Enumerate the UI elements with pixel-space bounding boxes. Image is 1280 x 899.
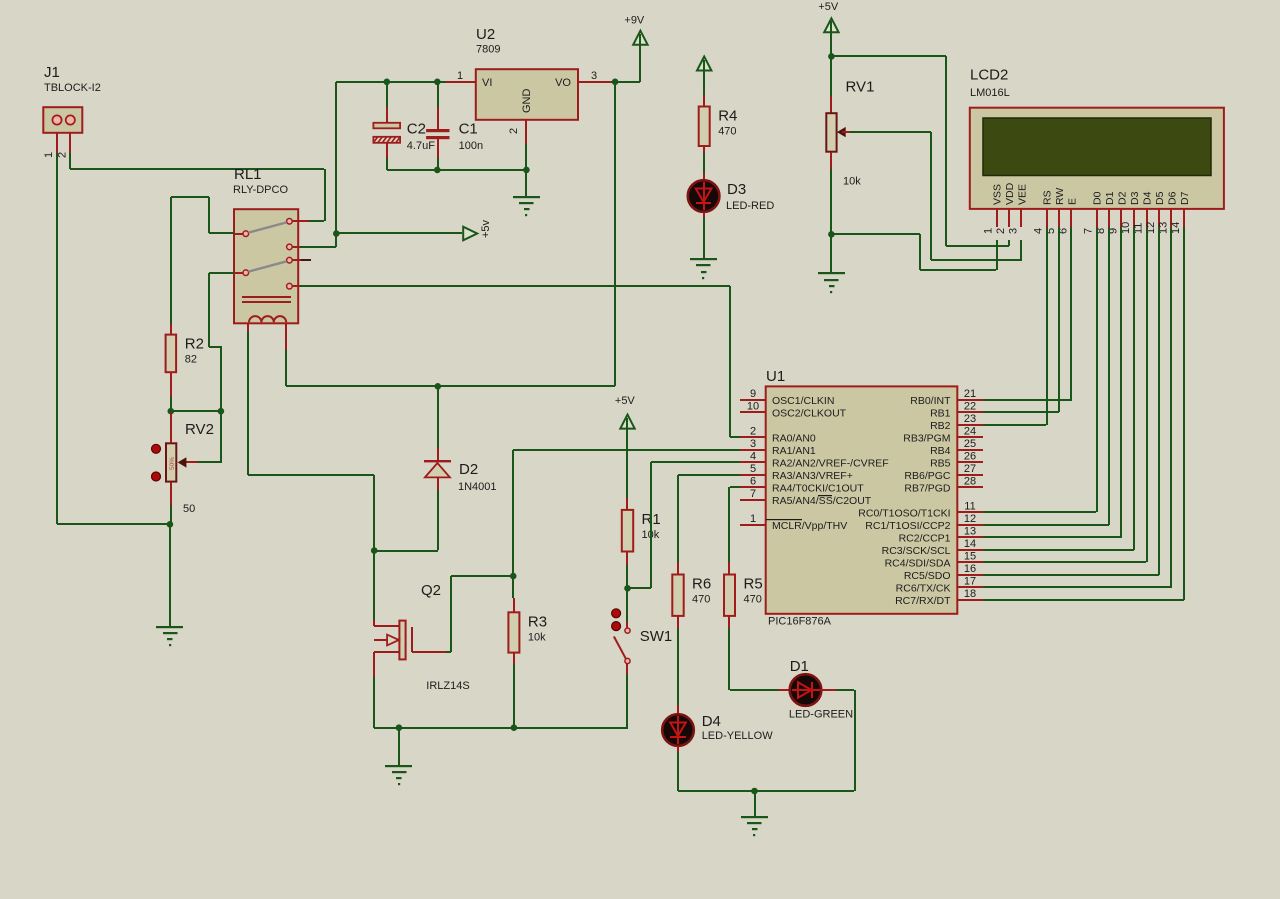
power symbol +5V above R1 [615, 395, 636, 429]
U1 pin 13 RC2/CCP1 [899, 525, 983, 544]
wire LCD D4 to PIC [983, 227, 1148, 563]
wire relay pole L2 to RV2 wiper net [208, 272, 234, 411]
svg-text:10k: 10k [528, 631, 546, 643]
svg-text:VSS: VSS [992, 184, 1004, 205]
relay contact pin R3 unconnected [287, 257, 311, 263]
U1 pin 2 RA0/AN0 [740, 425, 816, 444]
svg-text:D4: D4 [1142, 191, 1154, 205]
wire J1 pin1 down left side [56, 153, 58, 524]
potentiometer RV1 10k [826, 79, 874, 188]
svg-text:VEE: VEE [1017, 184, 1029, 205]
node R1/SW1 junction [624, 585, 631, 592]
U1 pin 6 RA4/T0CKI/C1OUT [740, 475, 864, 494]
LCD pin 6 E [1058, 198, 1079, 234]
regulator U2 7809 body [476, 26, 578, 120]
svg-text:RC4/SDI/SDA: RC4/SDI/SDA [885, 557, 951, 569]
LCD pin 12 D5 [1145, 191, 1166, 234]
svg-text:D3: D3 [1129, 191, 1141, 205]
svg-text:4.7uF: 4.7uF [407, 140, 435, 152]
U1 pin 22 RB1 [930, 400, 983, 419]
svg-text:R3: R3 [528, 613, 547, 630]
ground symbol lower-left [156, 524, 183, 646]
wire LCD RS to PIC [983, 227, 1048, 426]
svg-text:27: 27 [964, 463, 976, 475]
svg-text:28: 28 [964, 475, 976, 487]
wire +9V input drop to +5v arrow node [300, 82, 337, 248]
U1 pin 28 RB7/PGD [904, 475, 983, 494]
svg-text:LCD2: LCD2 [970, 67, 1008, 84]
wire U2 VO to +9V node [611, 81, 640, 83]
U1 pin 17 RC6/TX/CK [896, 575, 983, 594]
svg-text:2: 2 [508, 128, 520, 134]
svg-text:RLY-DPCO: RLY-DPCO [233, 184, 288, 196]
svg-text:+5V: +5V [615, 395, 636, 407]
node R3 gate junction [510, 573, 517, 580]
svg-text:6: 6 [750, 475, 756, 487]
svg-text:RB2: RB2 [930, 420, 951, 432]
svg-text:SW1: SW1 [640, 628, 673, 645]
wire R3 top to RA1 wire [512, 450, 514, 598]
wire R3 bottom to ground rail [513, 664, 515, 728]
svg-text:D1: D1 [1104, 191, 1116, 205]
svg-text:GND: GND [521, 89, 533, 114]
wire to +5v arrow [336, 232, 462, 234]
svg-text:E: E [1067, 198, 1079, 205]
svg-text:D4: D4 [702, 713, 721, 730]
svg-text:RA3/AN3/VREF+: RA3/AN3/VREF+ [772, 470, 853, 482]
U1 pin 4 RA2/AN2/VREF-/CVREF [740, 450, 889, 469]
svg-text:470: 470 [744, 594, 762, 606]
svg-text:7: 7 [1083, 228, 1095, 234]
wire R1 to SW1 junction [626, 565, 628, 588]
U1 pin 21 RB0/INT [910, 388, 983, 407]
relay coil terminal right [285, 323, 287, 350]
U1 pin 12 RC1/T1OSI/CCP2 [865, 513, 983, 532]
wire wiper to junction [198, 411, 222, 463]
svg-text:C2: C2 [407, 120, 426, 137]
node wiper-net junction [218, 408, 225, 415]
U1 pin 15 RC4/SDI/SDA [885, 550, 983, 569]
svg-text:+5V: +5V [818, 1, 839, 13]
svg-text:D0: D0 [1092, 191, 1104, 205]
wire LCD D6 to PIC [983, 227, 1172, 588]
wire R4 to D3 [703, 153, 705, 183]
LCD pin 7 D0 [1083, 191, 1104, 234]
pin 2 of J1 [56, 133, 71, 158]
svg-text:LED-GREEN: LED-GREEN [789, 709, 853, 721]
svg-text:10k: 10k [843, 176, 861, 188]
RV2 pin stubs [170, 413, 172, 505]
C1 pin stubs [437, 107, 439, 158]
node R2/RV2 junction [168, 408, 175, 415]
svg-text:25: 25 [964, 438, 976, 450]
wire LCD D3 to PIC [983, 227, 1135, 551]
power symbol +5V above RV1 [818, 1, 839, 33]
wire Q2 gate to R3 junction [446, 575, 513, 653]
svg-text:LED-YELLOW: LED-YELLOW [702, 730, 774, 742]
resistor R4 470 [699, 107, 738, 147]
wire relay pole L1 to R2 top [171, 196, 234, 234]
svg-text:17: 17 [964, 575, 976, 587]
potentiometer RV2 body [166, 421, 214, 515]
relay switch blade 2 [249, 261, 287, 271]
svg-text:RB7/PGD: RB7/PGD [904, 482, 951, 494]
wire D1 cathode to ground net [678, 689, 856, 792]
LCD pin 1 VSS [983, 184, 1004, 234]
svg-text:470: 470 [692, 594, 710, 606]
svg-text:MCLR/Vpp/THV: MCLR/Vpp/THV [772, 520, 847, 532]
svg-text:R5: R5 [744, 576, 763, 593]
svg-text:U1: U1 [766, 368, 785, 385]
D2 pin stubs [437, 448, 439, 490]
wire R2 bottom to junction [170, 397, 172, 411]
svg-text:RC0/T1OSO/T1CKI: RC0/T1OSO/T1CKI [858, 507, 950, 519]
wire LCD E to PIC [983, 227, 1072, 401]
power symbol +9V [624, 14, 647, 82]
LCD pin 10 D3 [1120, 191, 1141, 234]
LCD pin 5 RW [1045, 188, 1066, 234]
svg-text:RC1/T1OSI/CCP2: RC1/T1OSI/CCP2 [865, 520, 950, 532]
svg-text:82: 82 [185, 354, 197, 366]
U1 pin 18 RC7/RX/DT [895, 588, 983, 607]
U1 pin 25 RB4 [930, 438, 983, 457]
svg-text:1: 1 [750, 513, 756, 525]
node RV1 top junction [828, 53, 835, 60]
LCD pin 9 D2 [1108, 191, 1129, 234]
wire D4 cathode down [677, 746, 679, 791]
svg-text:R6: R6 [692, 576, 711, 593]
svg-text:50%: 50% [169, 457, 176, 470]
svg-text:RV2: RV2 [185, 421, 214, 438]
svg-text:R4: R4 [718, 108, 737, 125]
wire D2 anode down to drain net [374, 490, 439, 552]
LCD pin 3 VEE [1008, 184, 1029, 234]
svg-text:PIC16F876A: PIC16F876A [768, 615, 832, 627]
wire LCD D5 to PIC [983, 227, 1160, 576]
ground symbol below RV1 [818, 234, 845, 293]
wire R6 to D4 [677, 616, 679, 714]
wire Q2 source down [373, 652, 375, 728]
transistor Q2 IRLZ14S [374, 582, 470, 692]
pin stubs of R2 [170, 324, 172, 397]
svg-text:7809: 7809 [476, 43, 500, 55]
svg-text:RB4: RB4 [930, 445, 951, 457]
svg-text:10: 10 [747, 400, 759, 412]
wire SW1 bottom to ground rail [626, 664, 628, 728]
wire LCD RW to PIC [983, 227, 1060, 413]
svg-text:RB1: RB1 [930, 407, 951, 419]
LED D1 LED-GREEN [789, 658, 853, 721]
U2 pin 3 VO stub [578, 70, 611, 83]
node LED ground junction [751, 788, 758, 795]
wire capacitor ground rail [387, 169, 526, 171]
node R3 ground junction [511, 724, 518, 731]
switch SW1 [614, 588, 672, 664]
svg-text:LED-RED: LED-RED [726, 200, 774, 212]
svg-text:16: 16 [964, 563, 976, 575]
wire +5V to RV1 node [830, 32, 832, 56]
pin 1 of J1 [43, 133, 58, 158]
svg-text:9: 9 [750, 388, 756, 400]
svg-text:D1: D1 [790, 658, 809, 675]
svg-text:14: 14 [964, 538, 976, 550]
wire +5V node to LCD VDD [831, 55, 1010, 247]
wire R2 top [170, 197, 172, 324]
RV2 wiper arrow [178, 457, 198, 467]
svg-text:23: 23 [964, 413, 976, 425]
svg-text:LM016L: LM016L [970, 87, 1010, 99]
relay pole pin L1 [234, 231, 249, 237]
LED D3 LED-RED [688, 180, 775, 212]
wire junction to wiper drop [171, 410, 221, 412]
R1 bottom stub [626, 552, 628, 565]
svg-text:100n: 100n [459, 140, 483, 152]
svg-text:RB5: RB5 [930, 457, 951, 469]
svg-text:RA4/T0CKI/C1OUT: RA4/T0CKI/C1OUT [772, 482, 864, 494]
C2 pin stubs [386, 107, 388, 158]
node D2 anode junction [371, 547, 378, 554]
svg-text:R2: R2 [185, 336, 204, 353]
LCD display LCD2 LM016L body [970, 67, 1224, 209]
RV2 state indicator dots [152, 444, 161, 481]
wire C2 bottom to ground rail [386, 158, 388, 170]
svg-text:26: 26 [964, 450, 976, 462]
U1 pin 9 OSC1/CLKIN [740, 388, 834, 407]
svg-text:TBLOCK-I2: TBLOCK-I2 [44, 82, 101, 94]
svg-text:4: 4 [750, 450, 756, 462]
node D2 cathode junction [435, 383, 442, 390]
wire RA1 to PIC pin3 [513, 449, 740, 451]
wire relay contact R4 to PIC RA0 [300, 285, 740, 438]
capacitor C2 4.7uF [373, 120, 435, 152]
wire relay coil left to Q2 drain [247, 332, 375, 620]
wire RV1 wiper to LCD VEE [850, 131, 1022, 261]
wire U2 pin2 to ground rail [525, 144, 527, 170]
node Q2 ground junction [396, 724, 403, 731]
U1 pin 16 RC5/SDO [904, 563, 983, 582]
wire junction to PIC pin4 RA2 [628, 461, 740, 589]
svg-text:OSC1/CLKIN: OSC1/CLKIN [772, 395, 834, 407]
microcontroller U1 PIC16F876A body [766, 368, 958, 627]
wire source ground rail [374, 727, 628, 729]
svg-text:2: 2 [750, 425, 756, 437]
svg-text:1: 1 [983, 228, 995, 234]
SW1 state indicator dots [612, 609, 621, 631]
U1 pin 1 MCLR/Vpp/THV [740, 513, 847, 532]
node +5v tap junction [333, 230, 340, 237]
LCD pin 14 D7 [1170, 191, 1191, 234]
svg-text:1: 1 [457, 70, 463, 82]
resistor R1 10k [622, 510, 661, 552]
wire LCD D0 to PIC [983, 227, 1098, 513]
svg-text:18: 18 [964, 588, 976, 600]
ground symbol below D3 [690, 258, 717, 279]
svg-text:RC3/SCK/SCL: RC3/SCK/SCL [882, 545, 951, 557]
relay contact pin R1 top [287, 219, 309, 225]
wire RV1 bottom [830, 152, 832, 234]
U1 pin 26 RB5 [930, 450, 983, 469]
resistor R3 10k [508, 612, 547, 652]
svg-text:VDD: VDD [1004, 182, 1016, 205]
wire C2 top to rail [386, 82, 388, 107]
relay contact pin R2 [287, 244, 300, 250]
relay RL1 RLY-DPCO body [233, 166, 298, 323]
svg-text:+9V: +9V [624, 14, 645, 26]
power arrow +5v to relay supply [463, 219, 492, 240]
wire +9V node down to coil rail [614, 82, 616, 386]
svg-text:RA0/AN0: RA0/AN0 [772, 432, 816, 444]
svg-text:7: 7 [750, 488, 756, 500]
wire C1 top to rail [434, 79, 441, 108]
LCD pin 2 VDD [995, 182, 1016, 234]
svg-text:RC5/SDO: RC5/SDO [904, 570, 951, 582]
svg-text:C1: C1 [459, 120, 478, 137]
svg-text:D2: D2 [1117, 191, 1129, 205]
resistor R2 [166, 335, 204, 373]
svg-text:Q2: Q2 [421, 582, 441, 599]
wire LCD D1 to PIC [983, 227, 1110, 526]
wire PIC RA4 to R5 [728, 486, 740, 574]
svg-text:50: 50 [183, 503, 195, 515]
node U2 ground junction [523, 167, 530, 174]
svg-text:RL1: RL1 [234, 166, 262, 183]
ground symbol below Q2 [385, 728, 412, 785]
resistor R6 470 [672, 575, 711, 616]
node RV1 bottom junction [828, 231, 835, 238]
svg-text:VI: VI [482, 77, 492, 89]
svg-text:RB3/PGM: RB3/PGM [903, 432, 950, 444]
capacitor C1 100n [426, 120, 483, 152]
svg-text:1N4001: 1N4001 [458, 481, 497, 493]
relay switch blade 1 [249, 222, 287, 232]
svg-text:RS: RS [1042, 190, 1054, 205]
svg-text:470: 470 [718, 126, 736, 138]
U1 pin 3 RA1/AN1 [740, 438, 816, 457]
U1 pin 5 RA3/AN3/VREF+ [740, 463, 853, 482]
svg-text:RA2/AN2/VREF-/CVREF: RA2/AN2/VREF-/CVREF [772, 457, 889, 469]
svg-text:RA1/AN1: RA1/AN1 [772, 445, 816, 457]
wire J1 pin2 to relay pole contact [69, 153, 326, 222]
svg-text:21: 21 [964, 388, 976, 400]
svg-text:11: 11 [964, 500, 975, 512]
R4 bottom stub [703, 146, 705, 153]
wire +5V to R1 [626, 429, 628, 510]
relay pole pin L2 [234, 270, 249, 276]
wire D2 cathode up to rail [437, 386, 439, 448]
R3 pin stubs [513, 598, 515, 664]
U1 pin 14 RC3/SCK/SCL [882, 538, 983, 557]
resistor R5 470 [724, 575, 763, 616]
svg-text:15: 15 [964, 550, 976, 562]
U1 pin 23 RB2 [930, 413, 983, 432]
diode D2 1N4001 [424, 460, 497, 493]
svg-text:RC7/RX/DT: RC7/RX/DT [895, 595, 951, 607]
svg-text:U2: U2 [476, 26, 495, 43]
LED D4 LED-YELLOW [662, 713, 773, 746]
LCD pin 13 D6 [1158, 191, 1179, 234]
wire LCD D7 to PIC [983, 227, 1185, 601]
U1 pin 27 RB6/PGC [904, 463, 983, 482]
svg-text:24: 24 [964, 425, 976, 437]
U2 pin 2 GND stub [508, 120, 527, 144]
svg-text:2: 2 [995, 228, 1007, 234]
wire input rail to U2 VI [336, 81, 446, 83]
svg-text:RC6/TX/CK: RC6/TX/CK [896, 582, 951, 594]
node C2 rail junction [384, 79, 391, 86]
svg-text:RV1: RV1 [846, 79, 875, 96]
wire arrow to R4 [703, 70, 705, 106]
wire R5 to D1 [728, 616, 790, 691]
svg-text:IRLZ14S: IRLZ14S [426, 680, 469, 692]
wire RV1 top [830, 56, 832, 113]
svg-text:VO: VO [555, 77, 571, 89]
svg-text:1: 1 [43, 152, 55, 158]
svg-text:2: 2 [56, 152, 68, 158]
svg-text:5: 5 [750, 463, 756, 475]
relay contact pin R4 [287, 283, 300, 289]
svg-text:RB6/PGC: RB6/PGC [904, 470, 951, 482]
svg-text:22: 22 [964, 400, 976, 412]
relay coil terminal left [247, 323, 249, 332]
wire relay coil right to 9V rail [285, 350, 615, 387]
U1 pin 11 RC0/T1OSO/T1CKI [858, 500, 983, 519]
svg-text:3: 3 [591, 70, 597, 82]
svg-text:3: 3 [1008, 228, 1020, 234]
svg-text:OSC2/CLKOUT: OSC2/CLKOUT [772, 407, 847, 419]
LCD screen area [983, 118, 1211, 176]
node +9V junction [612, 79, 619, 86]
svg-text:D2: D2 [459, 461, 478, 478]
svg-text:RA5/AN4/SS/C2OUT: RA5/AN4/SS/C2OUT [772, 495, 872, 507]
wire RV2 bottom to ground junction [170, 505, 172, 524]
svg-text:4: 4 [1033, 228, 1045, 234]
svg-text:RW: RW [1054, 188, 1066, 205]
node ground-left junction [167, 521, 174, 528]
wire Q2 drain red segment [373, 620, 375, 626]
terminal block J1 [43, 64, 101, 133]
svg-text:RB0/INT: RB0/INT [910, 395, 951, 407]
svg-text:D3: D3 [727, 181, 746, 198]
relay coil winding arcs [249, 316, 286, 322]
wire PIC RA3 to R6 [677, 474, 740, 574]
svg-text:13: 13 [964, 525, 976, 537]
U1 pin 10 OSC2/CLKOUT [740, 400, 847, 419]
ground symbol below U2 [513, 170, 540, 216]
power arrow above R4 [697, 57, 711, 71]
svg-text:12: 12 [964, 513, 976, 525]
LCD pin 4 RS [1033, 190, 1054, 234]
U2 pin 1 VI stub [446, 70, 476, 83]
LCD pin 11 D4 [1133, 191, 1154, 234]
svg-text:3: 3 [750, 438, 756, 450]
svg-text:RC2/CCP1: RC2/CCP1 [899, 532, 951, 544]
svg-text:+5v: +5v [480, 219, 492, 238]
U1 pin 7 RA5/AN4/SS/C2OUT [740, 488, 872, 507]
wire RV1 bottom to LCD VSS [831, 233, 998, 271]
wire J1 pin1 to ground junction [57, 523, 170, 525]
svg-text:D6: D6 [1167, 191, 1179, 205]
svg-text:J1: J1 [44, 64, 60, 81]
ground symbol below LEDs [741, 791, 768, 836]
wire D3 cathode to ground [703, 212, 705, 258]
svg-text:D5: D5 [1154, 191, 1166, 205]
wire LCD D2 to PIC [983, 227, 1122, 538]
svg-text:D7: D7 [1179, 191, 1191, 205]
U1 pin 24 RB3/PGM [903, 425, 983, 444]
wire C1 bottom to ground rail [434, 158, 441, 173]
RV1 wiper arrow [837, 127, 850, 137]
LCD pin 8 D1 [1095, 191, 1116, 234]
